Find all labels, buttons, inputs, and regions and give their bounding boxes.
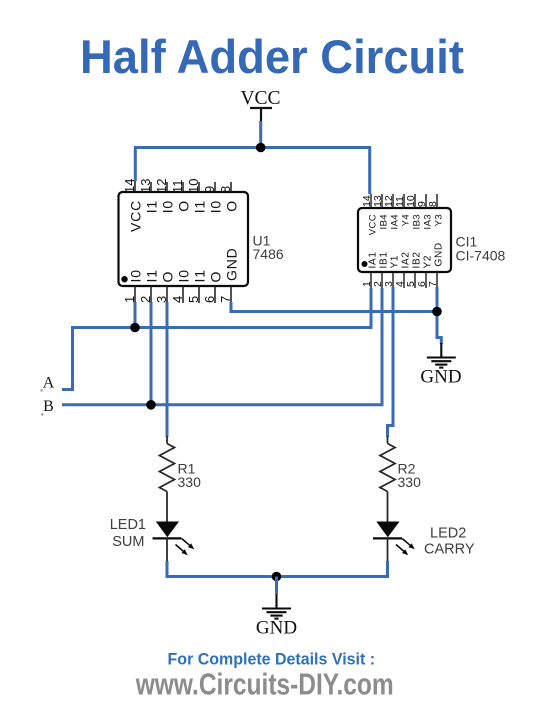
wire VCC rail (134, 146, 371, 149)
CI1 top pin leads 14-8 (371, 194, 437, 208)
svg-text:GND: GND (420, 367, 461, 388)
junction GND net right (432, 307, 442, 317)
junction VCC node (256, 143, 266, 153)
junction A at U1 pin1 (130, 323, 140, 333)
ground symbol right (427, 343, 456, 368)
svg-text:7: 7 (427, 281, 439, 287)
svg-text:8: 8 (218, 186, 233, 193)
svg-text:Y3: Y3 (434, 214, 445, 226)
wire VCC drop to CI1 pin 14 (368, 147, 371, 195)
CI1 bottom pin numbers (361, 281, 439, 287)
svg-text:Y2: Y2 (423, 255, 434, 269)
wire bottom rail (167, 575, 388, 576)
CI1 top pin names (368, 214, 445, 235)
svg-text:O: O (224, 200, 240, 212)
svg-text:7: 7 (218, 296, 233, 303)
svg-text:IA3: IA3 (423, 214, 434, 229)
svg-text:IB3: IB3 (412, 214, 423, 229)
resistor R2 (380, 436, 395, 522)
svg-text:Half Adder Circuit: Half Adder Circuit (80, 31, 464, 84)
svg-text:2: 2 (138, 296, 153, 303)
pin 1 marker CI1 (362, 261, 368, 267)
svg-text:O: O (160, 271, 176, 283)
wire U1 pin3 to R1 (166, 302, 169, 437)
svg-text:13: 13 (138, 179, 153, 193)
resistor R1 (160, 436, 175, 522)
svg-text:VCC: VCC (128, 200, 144, 232)
svg-text:330: 330 (398, 474, 422, 490)
wire net A (62, 288, 371, 390)
label R2 330 (398, 461, 422, 491)
svg-text:VCC: VCC (240, 88, 280, 109)
svg-text:LED1: LED1 (110, 517, 146, 533)
svg-text:I1: I1 (192, 269, 208, 282)
svg-text:8: 8 (427, 201, 439, 207)
svg-text:IA1: IA1 (368, 251, 379, 268)
CI1 top pin numbers (361, 195, 439, 207)
U1 bottom pin leads 1-7 (135, 286, 231, 303)
LED1 light arrows (176, 539, 195, 556)
svg-text:I0: I0 (160, 200, 176, 213)
svg-text:I1: I1 (144, 200, 160, 213)
svg-text:CI-7408: CI-7408 (456, 248, 506, 264)
CI1 bottom pin names (368, 242, 445, 268)
VCC power symbol (250, 108, 272, 122)
junction bottom GND node (272, 572, 282, 582)
svg-text:www.Circuits-DIY.com: www.Circuits-DIY.com (135, 667, 394, 702)
svg-text:3: 3 (154, 296, 169, 303)
label LED1 SUM (110, 517, 146, 550)
svg-text:O: O (208, 271, 224, 283)
IC CI1 7408 body (358, 208, 451, 272)
label R1 330 (178, 461, 202, 491)
svg-text:VCC: VCC (368, 214, 379, 235)
svg-text:I0: I0 (176, 269, 192, 282)
svg-text:IA2: IA2 (401, 251, 412, 268)
svg-text:IA4: IA4 (390, 214, 401, 229)
LED LED1 (153, 522, 195, 562)
svg-text:10: 10 (186, 179, 201, 193)
svg-text:330: 330 (178, 474, 202, 490)
svg-text:GND: GND (434, 242, 445, 266)
svg-text:I1: I1 (144, 269, 160, 282)
CI1 bottom pin leads 1-7 (371, 272, 437, 288)
svg-text:12: 12 (154, 179, 169, 193)
wire CI1 pin7 to GND symbol (437, 287, 441, 344)
svg-text:SUM: SUM (112, 534, 144, 550)
svg-text:9: 9 (202, 186, 217, 193)
IC U1 7486 body (119, 192, 249, 286)
U1 bottom pin names (128, 247, 240, 282)
svg-text:1: 1 (122, 296, 137, 303)
svg-text:GND: GND (224, 247, 240, 281)
wire GND drop (275, 577, 278, 595)
svg-text:4: 4 (170, 296, 185, 303)
svg-text:IB4: IB4 (379, 214, 390, 229)
svg-text:Y4: Y4 (401, 214, 412, 226)
wire net B (62, 288, 382, 405)
wire VCC stem (259, 121, 262, 148)
ground symbol bottom (262, 594, 291, 619)
wire U1 pin1 to A line (134, 302, 137, 328)
wire U1 pin7 to GND node (231, 302, 437, 312)
CI1 reference label (456, 234, 506, 264)
junction B at U1 pin2 (146, 400, 156, 410)
svg-text:5: 5 (186, 296, 201, 303)
wire U1 pin2 to B line (150, 302, 153, 405)
svg-text:IB1: IB1 (379, 251, 390, 268)
wire VCC drop to U1 pin 14 (134, 147, 137, 182)
U1 top pin numbers (122, 179, 233, 193)
port marker B (41, 413, 43, 415)
wire LED2 to bottom rail (386, 561, 389, 577)
svg-text:A: A (43, 375, 55, 392)
label LED2 CARRY (424, 526, 475, 558)
svg-text:B: B (43, 398, 54, 415)
svg-text:14: 14 (122, 179, 137, 193)
svg-text:6: 6 (202, 296, 217, 303)
svg-text:LED2: LED2 (430, 526, 466, 542)
port marker A (41, 389, 43, 391)
U1 reference label (253, 233, 284, 262)
U1 bottom pin numbers (122, 296, 233, 303)
svg-text:O: O (176, 200, 192, 212)
svg-text:GND: GND (256, 618, 297, 639)
pin 1 marker U1 (121, 276, 127, 282)
svg-text:I1: I1 (192, 200, 208, 213)
U1 top pin names (128, 200, 240, 232)
LED LED2 (373, 522, 415, 562)
svg-text:Y1: Y1 (390, 255, 401, 269)
wire CI1 pin3 to R2 (388, 287, 394, 437)
svg-text:7486: 7486 (253, 246, 284, 262)
svg-text:CARRY: CARRY (424, 542, 475, 558)
U1 top pin leads 14-8 (135, 181, 231, 192)
svg-text:I0: I0 (128, 269, 144, 282)
svg-text:11: 11 (170, 180, 185, 194)
LED2 light arrows (396, 539, 415, 556)
svg-text:IB2: IB2 (412, 251, 423, 268)
svg-text:I0: I0 (208, 200, 224, 213)
wire LED1 to bottom rail (166, 561, 169, 577)
